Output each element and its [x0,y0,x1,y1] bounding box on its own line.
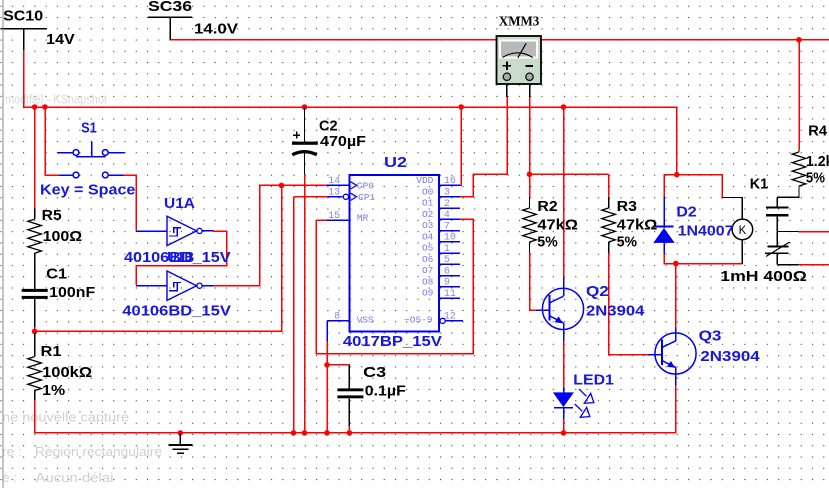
svg-text:1: 1 [444,244,450,255]
svg-text:é :: é : [2,470,17,485]
svg-text:100Ω: 100Ω [43,228,83,245]
svg-text:5%: 5% [806,169,825,186]
svg-text:O3: O3 [422,220,434,231]
svg-text:470µF: 470µF [320,133,366,150]
svg-text:C3: C3 [363,364,386,381]
svg-text:47kΩ: 47kΩ [537,216,578,233]
svg-text:12: 12 [444,312,456,323]
svg-text:D2: D2 [676,203,696,220]
svg-text:4017BP_15V: 4017BP_15V [343,333,442,350]
svg-text:2N3904: 2N3904 [700,348,760,365]
svg-text:C2: C2 [319,118,338,135]
svg-text:SC10: SC10 [3,7,43,24]
svg-text:2: 2 [444,199,450,210]
svg-text:C1: C1 [46,265,67,282]
svg-text:K1: K1 [750,176,768,193]
svg-text:5%: 5% [617,234,637,251]
svg-text:100nF: 100nF [49,284,95,301]
svg-text:U2: U2 [384,154,407,171]
svg-text:14V: 14V [46,31,74,48]
svg-text:6: 6 [444,266,450,277]
svg-text:9: 9 [444,278,450,289]
svg-text:SC36: SC36 [148,0,192,15]
svg-text:1mH 400Ω: 1mH 400Ω [720,268,807,285]
svg-text:4: 4 [444,210,450,221]
svg-text:40106BD_15V: 40106BD_15V [122,303,231,320]
svg-text:R1: R1 [41,343,62,360]
svg-text:15: 15 [328,211,340,222]
svg-text:R3: R3 [617,198,637,215]
svg-text:XMM3: XMM3 [499,14,540,29]
svg-text:O1: O1 [422,198,434,209]
svg-text:8: 8 [334,312,340,323]
svg-text:MR: MR [357,213,369,224]
svg-text:modifié] - KSnapshot: modifié] - KSnapshot [5,92,107,107]
svg-text:O4: O4 [422,232,434,243]
svg-text:VDD: VDD [416,175,433,186]
svg-text:1%: 1% [42,382,65,399]
svg-text:VSS: VSS [357,315,374,326]
svg-text:R4: R4 [808,122,827,139]
svg-text:47kΩ: 47kΩ [617,216,658,233]
svg-text:K: K [739,225,747,237]
svg-text:O9: O9 [422,288,434,299]
svg-text:O6: O6 [422,254,434,265]
svg-text:7: 7 [444,221,450,232]
svg-text:U1A: U1A [164,195,195,212]
svg-text:10: 10 [444,233,456,244]
svg-text:O5: O5 [422,243,434,254]
svg-text:0.1µF: 0.1µF [365,382,406,399]
svg-text:Région rectangulaire: Région rectangulaire [35,444,162,459]
svg-text:13: 13 [328,188,340,199]
svg-text:O7: O7 [422,265,433,276]
svg-text:11: 11 [444,289,456,300]
svg-text:U1B: U1B [167,249,194,266]
svg-text:~O5-9: ~O5-9 [404,314,433,325]
svg-text:~CP1: ~CP1 [352,192,375,203]
svg-text:re :: re : [2,444,22,459]
svg-text:O2: O2 [422,209,434,220]
svg-text:2N3904: 2N3904 [586,303,645,320]
svg-text:3: 3 [444,188,450,199]
svg-text:5: 5 [444,255,450,266]
svg-text:1.2kΩ: 1.2kΩ [806,153,829,170]
svg-text:S1: S1 [81,120,97,137]
svg-text:CP0: CP0 [357,180,374,191]
svg-text:O0: O0 [422,186,434,197]
svg-text:LED1: LED1 [573,372,614,389]
svg-text:ne nouvelle capture: ne nouvelle capture [2,410,129,425]
svg-text:Q2: Q2 [586,283,609,300]
svg-text:R2: R2 [537,198,557,215]
svg-text:14.0V: 14.0V [194,20,238,37]
svg-text:1N4007: 1N4007 [678,223,734,240]
svg-text:14: 14 [328,176,340,187]
svg-text:Aucun délai: Aucun délai [36,470,114,485]
svg-text:R5: R5 [42,207,62,224]
svg-text:O8: O8 [422,277,434,288]
svg-text:100kΩ: 100kΩ [42,364,92,381]
svg-text:16: 16 [444,176,456,187]
svg-text:Q3: Q3 [699,328,722,345]
svg-text:Key = Space: Key = Space [40,181,135,198]
svg-text:5%: 5% [537,234,557,251]
